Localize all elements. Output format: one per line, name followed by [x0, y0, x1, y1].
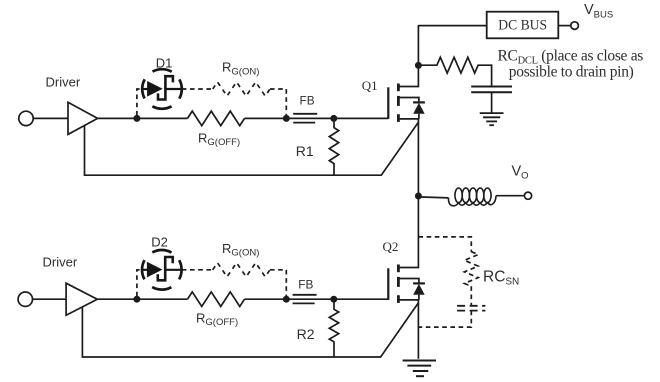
svg-text:Q1: Q1 [362, 78, 378, 93]
svg-text:RG(OFF): RG(OFF) [196, 310, 238, 328]
svg-text:VBUS: VBUS [584, 2, 613, 21]
svg-text:VO: VO [512, 163, 529, 181]
svg-text:D1: D1 [156, 56, 173, 71]
svg-text:RG(ON): RG(ON) [222, 60, 259, 78]
svg-text:R1: R1 [296, 143, 314, 159]
svg-text:Driver: Driver [43, 254, 78, 269]
svg-text:FB: FB [298, 277, 313, 291]
svg-text:FB: FB [300, 94, 315, 108]
svg-text:DC BUS: DC BUS [498, 17, 547, 34]
svg-text:Q2: Q2 [383, 239, 399, 254]
svg-text:D2: D2 [151, 235, 168, 250]
svg-text:RCSN: RCSN [483, 269, 519, 288]
svg-text:Driver: Driver [46, 74, 81, 89]
svg-text:possible to drain pin): possible to drain pin) [509, 64, 634, 81]
svg-text:RG(ON): RG(ON) [222, 241, 259, 259]
svg-text:R2: R2 [297, 326, 315, 342]
svg-text:RG(OFF): RG(OFF) [198, 130, 240, 148]
